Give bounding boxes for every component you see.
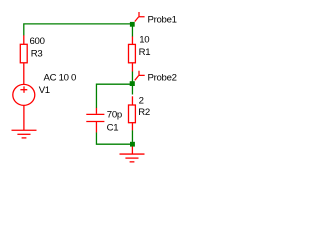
probe marker Probe1 (135, 12, 145, 22)
ground bottom right (120, 147, 145, 162)
node bottom junction (130, 142, 135, 147)
resistor R3 (20, 35, 27, 84)
wire R1 bottom to Probe2 node (131, 72, 133, 82)
svg-text:V1: V1 (39, 85, 50, 96)
resistor R1 (129, 36, 136, 71)
svg-text:Probe2: Probe2 (148, 73, 177, 84)
node Probe2 junction (130, 81, 135, 86)
probe marker Probe2 (135, 71, 145, 81)
svg-text:R3: R3 (31, 48, 43, 59)
svg-text:70p: 70p (107, 109, 122, 120)
wire R2 bottom to bottom node (131, 130, 133, 142)
capacitor C1 (86, 108, 104, 132)
wire Probe2 node left and down to C1 (96, 84, 132, 108)
svg-text:2: 2 (139, 95, 144, 106)
wire right stub from Probe1 node down (131, 24, 133, 37)
resistor R2 (129, 96, 136, 130)
wire Probe2 node down to R2 (131, 86, 133, 95)
svg-text:600: 600 (30, 36, 45, 47)
wire top horizontal with left corner drop (24, 24, 133, 36)
svg-text:AC 10 0: AC 10 0 (44, 72, 77, 83)
ground under V1 (12, 130, 37, 138)
svg-text:C1: C1 (107, 122, 119, 133)
svg-text:R2: R2 (138, 107, 150, 118)
voltage source V1 (13, 84, 35, 130)
svg-text:R1: R1 (139, 47, 151, 58)
wire below C1 to bottom node (96, 132, 130, 144)
node Probe1 junction (130, 22, 135, 27)
svg-text:Probe1: Probe1 (148, 15, 177, 26)
svg-text:10: 10 (139, 35, 149, 46)
